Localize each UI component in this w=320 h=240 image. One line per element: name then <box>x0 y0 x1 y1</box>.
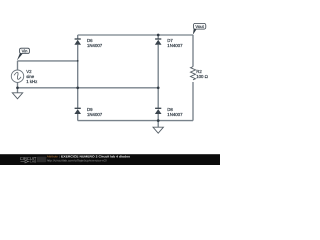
svg-text:1 kHz: 1 kHz <box>26 79 37 84</box>
diode D6 <box>74 39 81 45</box>
wire right column bottom (R2 to bottom rail) <box>192 82 194 121</box>
wire left branch (D6 anode to D9 cathode) <box>77 35 79 121</box>
wire V2 bottom lead <box>17 82 19 93</box>
resistor R2 <box>191 67 196 80</box>
svg-text:1N4007: 1N4007 <box>87 112 103 117</box>
footer bar <box>0 154 220 165</box>
wire Vin to left branch <box>18 60 78 62</box>
ground (under V2) <box>12 93 22 99</box>
svg-text:LAB: LAB <box>30 160 36 164</box>
wire right column top (Vout corner to R2) <box>192 35 194 67</box>
ground (bottom right) <box>153 127 163 133</box>
footer CircuitLab logo <box>20 156 37 164</box>
node Vout label <box>193 23 206 34</box>
wire mid rail (source return) <box>18 87 159 89</box>
diode D7 <box>155 39 162 45</box>
wire right ground stub <box>157 121 159 128</box>
svg-text:Vin: Vin <box>22 48 29 53</box>
svg-text:1N4007: 1N4007 <box>167 112 183 117</box>
voltage source V2 <box>11 70 23 82</box>
node Vin label <box>17 48 30 60</box>
wire bottom rail <box>78 120 193 122</box>
svg-text:Vout: Vout <box>195 24 204 29</box>
wire V2 top lead <box>17 61 19 71</box>
wire top rail <box>78 34 193 36</box>
svg-text:1N4007: 1N4007 <box>167 43 183 48</box>
svg-text:http://circuitlab.com/c/8ajw5c: http://circuitlab.com/c/8ajw5cp/exercice… <box>47 158 107 162</box>
svg-text:100 Ω: 100 Ω <box>196 74 208 79</box>
diode D8 (bottom right) <box>155 108 162 114</box>
diode D9 (bottom left) <box>74 108 81 114</box>
svg-text:1N4007: 1N4007 <box>87 43 103 48</box>
footer logo badge <box>37 157 46 163</box>
node junction dots <box>16 34 159 122</box>
wire right branch (D7 anode to D8 cathode) <box>157 35 159 121</box>
